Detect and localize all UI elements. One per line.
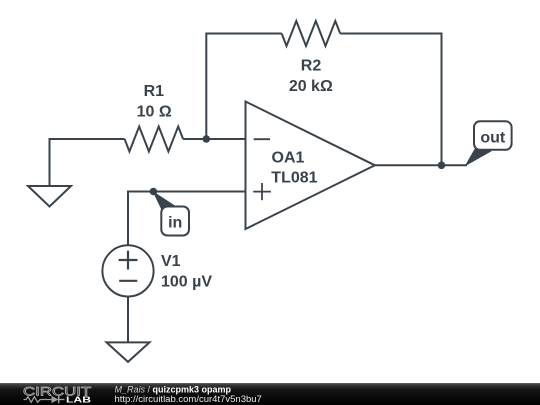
node in flag box bbox=[161, 207, 189, 236]
svg-text:http://circuitlab.com/cur4t7v5: http://circuitlab.com/cur4t7v5n3bu7 bbox=[115, 394, 262, 405]
voltage source V1 bbox=[102, 245, 153, 296]
V1 minus mark bbox=[119, 280, 137, 282]
flag pointer for in bbox=[152, 191, 176, 212]
wire op-amp output to out flag bbox=[375, 164, 467, 166]
flag pointer for out bbox=[465, 147, 493, 167]
wire V1 up to non-inverting input bbox=[128, 192, 246, 246]
svg-text:100 µV: 100 µV bbox=[161, 274, 212, 291]
op-amp non-inverting pin mark bbox=[253, 183, 271, 200]
svg-text:in: in bbox=[168, 215, 182, 232]
logo diode bbox=[52, 396, 65, 403]
footer bar bbox=[0, 383, 540, 405]
svg-text:TL081: TL081 bbox=[271, 169, 317, 186]
wire V1 down to ground bbox=[127, 297, 129, 344]
op-amp OA1 bbox=[246, 102, 375, 230]
V1 plus mark bbox=[119, 251, 138, 270]
logo resistor squiggle bbox=[24, 397, 52, 403]
node junction at R1/R2 bbox=[203, 135, 211, 143]
wire R1 to op-amp inverting input bbox=[183, 138, 245, 140]
ground (bottom) bbox=[107, 342, 150, 362]
ground (left) bbox=[28, 186, 71, 207]
node out flag box bbox=[474, 121, 512, 150]
node junction at output bbox=[438, 162, 446, 170]
resistor R1 bbox=[125, 127, 184, 152]
resistor R2 bbox=[282, 21, 341, 46]
svg-text:10 Ω: 10 Ω bbox=[137, 103, 172, 120]
wire junction up to R2 bbox=[206, 34, 281, 140]
node junction at in flag bbox=[150, 188, 158, 196]
svg-text:LAB: LAB bbox=[66, 395, 91, 405]
svg-text:out: out bbox=[480, 129, 506, 146]
op-amp inverting pin mark bbox=[254, 138, 270, 140]
svg-text:R1: R1 bbox=[144, 83, 165, 100]
svg-text:OA1: OA1 bbox=[272, 149, 305, 166]
svg-text:20 kΩ: 20 kΩ bbox=[289, 78, 333, 95]
svg-text:R2: R2 bbox=[301, 57, 322, 74]
svg-text:V1: V1 bbox=[161, 253, 181, 270]
svg-text:M_Rais / quizcpmk3 opamp: M_Rais / quizcpmk3 opamp bbox=[115, 384, 232, 394]
wire from left ground up and right to R1 bbox=[50, 139, 125, 187]
wire R2 right and down to output bbox=[340, 34, 441, 166]
